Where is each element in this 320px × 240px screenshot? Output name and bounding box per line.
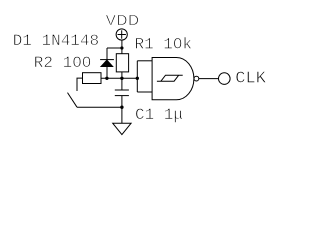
svg-text:VDD: VDD <box>106 12 140 29</box>
svg-text:C1 1μ: C1 1μ <box>135 106 183 124</box>
svg-text:D1 1N4148: D1 1N4148 <box>13 32 99 50</box>
svg-text:CLK: CLK <box>235 69 266 88</box>
svg-text:R1 10k: R1 10k <box>135 36 193 54</box>
svg-text:R2 100: R2 100 <box>34 54 92 72</box>
